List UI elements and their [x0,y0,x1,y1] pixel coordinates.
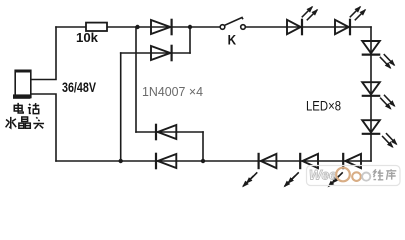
diode D4 [156,154,176,168]
node A junction dot [135,25,139,29]
LED5 [362,120,396,146]
wire left bridge drop [120,53,122,161]
diode D2 [151,46,172,60]
svg-text:LED×8: LED×8 [306,99,341,114]
wire row2 right riser [189,27,191,53]
watermark Weeqoo box [307,166,401,186]
node B junction dot [188,25,192,29]
LED7 [285,154,318,186]
LED8 [244,154,277,186]
connector J1 phone crystal head [13,70,31,99]
wire mid bridge drop [135,27,137,132]
wire row3 [136,131,203,133]
wire top rail resistor-to-switch [107,26,220,28]
wire row3 right drop [202,132,204,161]
LED6 [329,154,361,186]
label 水晶头 (hand-drawn glyphs) [6,117,44,129]
bridge: wire row2 [121,52,190,54]
wire right rail [370,27,372,161]
wire bottom rail [56,160,371,162]
LED4 [362,82,394,108]
wire connector bottom stub [31,94,56,161]
watermark o circle tan [352,172,361,181]
wire top rail left segment [56,26,86,28]
label 电话 (hand-drawn glyphs) [14,103,39,114]
svg-text:Wee: Wee [309,168,337,183]
LED1 [287,7,317,34]
svg-text:K: K [228,31,237,47]
svg-text:36/48V: 36/48V [62,80,96,95]
resistor R 10k [86,23,107,31]
switch K [220,18,245,30]
diode D1 [151,20,172,34]
watermark o circle gray [362,173,370,181]
node C junction dot [119,159,123,163]
LED2 [335,7,365,34]
svg-text:10k: 10k [76,30,99,45]
svg-text:1N4007 ×4: 1N4007 ×4 [142,85,203,99]
watermark Q circle [336,168,350,182]
wire top rail switch-to-corner [245,26,371,28]
wire connector top stub [31,27,56,80]
watermark 维库 (hand-drawn glyphs) [373,169,396,180]
LED3 [362,41,394,67]
node D junction dot [201,159,205,163]
diode D3 [156,125,176,139]
